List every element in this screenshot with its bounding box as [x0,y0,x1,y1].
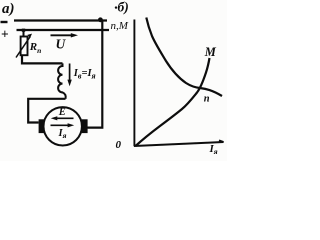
rheostat Rп box [21,37,28,56]
field winding coil [58,63,66,98]
svg-text:n,M: n,M [111,20,129,32]
wire below rheostat [22,55,63,64]
svg-text:Iя: Iя [209,143,218,156]
svg-text:U: U [56,37,67,52]
svg-text:n: n [204,93,210,104]
motor armature circle [44,107,82,145]
armature current arrow Iя (right) [51,124,71,126]
emf arrow E (left) [54,117,74,119]
wire drop to rheostat [23,30,25,37]
wire negative bus [14,19,107,21]
voltage arrow U [51,34,75,36]
svg-text:E: E [58,107,66,118]
curve n [146,18,222,97]
svg-text:+: + [1,27,9,42]
svg-text:Iя: Iя [58,128,67,140]
svg-text:а): а) [2,1,15,17]
brush right [82,119,88,133]
wire coil to motor left [28,99,65,123]
wire right branch [87,21,102,128]
node rheostat tap [22,29,25,32]
svg-text:б): б) [118,0,129,15]
brush left [39,119,44,133]
wire positive bus [17,29,110,31]
current arrow down [69,64,71,83]
minus terminal [1,21,8,23]
x-axis [134,140,224,146]
node junction dot top right [98,17,103,22]
curve M [136,58,210,146]
svg-text:M: M [204,45,217,59]
rheostat arrow [16,37,30,58]
y-axis [133,20,135,147]
speck before б [115,6,117,8]
svg-text:Rп: Rп [29,41,42,55]
svg-text:0: 0 [116,139,122,151]
svg-text:Iв=Iя: Iв=Iя [73,68,96,81]
